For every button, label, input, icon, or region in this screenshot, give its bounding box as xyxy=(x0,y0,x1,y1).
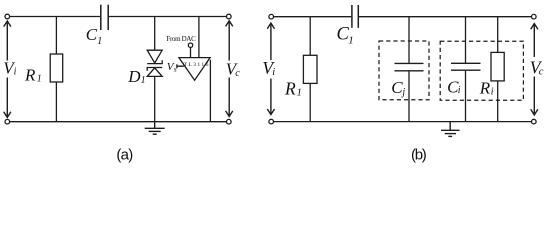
wire: top rail right segment (a) xyxy=(109,16,226,18)
svg-text:c: c xyxy=(539,67,544,78)
label R1 (b) xyxy=(284,78,302,98)
voltage arrow Vi (a) xyxy=(4,21,11,117)
wire: top rail left segment (b) xyxy=(274,16,351,18)
resistor R1 (b) xyxy=(303,55,317,83)
svg-text:1: 1 xyxy=(141,75,146,86)
wire: Ri top lead xyxy=(497,17,499,53)
diode D1 back-to-back zener pair xyxy=(147,50,162,76)
node: output terminal top-right (a) xyxy=(227,14,232,19)
wire: R1 bottom lead (a) xyxy=(55,82,57,122)
svg-text:1: 1 xyxy=(297,87,302,98)
svg-text:R: R xyxy=(479,79,491,98)
svg-text:(b): (b) xyxy=(411,147,427,164)
svg-text:1: 1 xyxy=(348,35,354,47)
op-amp U1 comparator TL3116 xyxy=(179,58,210,81)
node: output terminal top-right (b) xyxy=(532,14,537,19)
capacitor Cj xyxy=(395,63,424,70)
dashed box around Cj xyxy=(379,41,429,100)
svg-text:i: i xyxy=(272,67,275,78)
label Cj xyxy=(391,78,405,98)
wire: D1 bottom lead (a) xyxy=(154,76,156,121)
label D1 (a) xyxy=(127,67,145,86)
node: From DAC terminal xyxy=(188,43,192,47)
capacitor C1 (a) xyxy=(101,5,108,30)
wire: R1 top lead (b) xyxy=(309,17,311,56)
node: output terminal bottom-right (b) xyxy=(532,119,537,124)
label Vc (a) xyxy=(226,59,240,78)
wire: Ci bottom lead xyxy=(465,71,467,122)
wire: Vs input stub to comparator xyxy=(177,64,184,68)
node: output terminal bottom-right (a) xyxy=(227,119,232,124)
label R1 (a) xyxy=(24,65,42,84)
svg-text:i: i xyxy=(458,85,461,96)
svg-text:D: D xyxy=(127,67,141,86)
wire: Cj bottom lead xyxy=(408,71,410,121)
svg-text:(a): (a) xyxy=(116,147,133,164)
ground (b) xyxy=(441,122,460,137)
svg-text:From DAC: From DAC xyxy=(166,35,196,43)
label Ri xyxy=(479,79,494,98)
svg-text:1: 1 xyxy=(97,36,102,47)
wire: Ci top lead xyxy=(465,17,467,63)
resistor R1 (a) xyxy=(50,54,63,82)
label Vc (b) xyxy=(530,58,544,78)
wire: comparator output to bottom rail xyxy=(209,60,211,122)
voltage arrow Vc (b) xyxy=(531,24,538,115)
node: input terminal top-left (a) xyxy=(5,14,10,19)
wire: top rail right segment (b) xyxy=(359,16,531,18)
wire: Ri bottom lead xyxy=(497,81,499,122)
wire: DAC terminal to comparator input xyxy=(190,48,192,58)
voltage arrow Vi (b) xyxy=(267,23,274,115)
svg-text:R: R xyxy=(24,65,36,84)
node: input terminal bottom-left (a) xyxy=(5,119,10,124)
capacitor Ci xyxy=(451,63,481,70)
wire: top rail left segment (a) xyxy=(10,16,100,18)
svg-text:1: 1 xyxy=(37,73,42,84)
wire: Cj top lead xyxy=(408,17,410,63)
wire: R1 top lead (a) xyxy=(55,17,57,55)
svg-text:TL3116: TL3116 xyxy=(184,62,209,68)
wire: D1 top lead (a) xyxy=(154,17,156,51)
wire: bottom rail (b) xyxy=(274,121,532,123)
node: input terminal top-left (b) xyxy=(269,14,274,19)
ground (a) xyxy=(145,122,165,135)
svg-text:i: i xyxy=(14,67,17,78)
capacitor C1 (b) xyxy=(352,5,358,28)
label Vs xyxy=(167,61,177,74)
svg-text:s: s xyxy=(174,65,177,73)
resistor Ri xyxy=(491,52,504,81)
svg-text:c: c xyxy=(235,68,240,79)
node: input terminal bottom-left (b) xyxy=(269,119,274,124)
svg-text:C: C xyxy=(391,78,403,97)
wire: bottom rail (a) xyxy=(10,121,227,123)
label C1 (b) xyxy=(337,25,354,47)
svg-text:i: i xyxy=(491,86,494,97)
svg-text:C: C xyxy=(86,25,98,44)
wire: R1 bottom lead (b) xyxy=(309,83,311,121)
dashed box around Ci and Ri xyxy=(440,41,523,100)
label Ci xyxy=(447,77,461,96)
label Vi (a) xyxy=(3,58,16,77)
svg-text:R: R xyxy=(284,78,296,98)
voltage arrow Vc (a) xyxy=(226,21,233,117)
wire: top rail to comparator (a) xyxy=(198,17,200,58)
label Vi (b) xyxy=(262,58,275,78)
label C1 (a) xyxy=(86,25,102,47)
